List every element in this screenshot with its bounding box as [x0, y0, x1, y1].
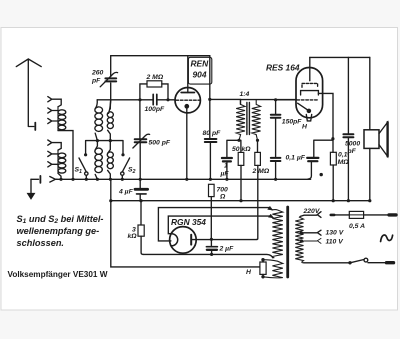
wire HT bottom line [143, 254, 273, 257]
wire V3 anode out [191, 239, 257, 241]
tube V1 REN904 envelope [175, 88, 200, 113]
capacitor C 2uF [210, 239, 212, 254]
tube V1 grid dashes [176, 99, 200, 101]
label box REN 904 [188, 57, 211, 84]
rectifier box outer line [158, 208, 272, 241]
antenna tap arrows lower [48, 140, 61, 150]
transformer T1 core [247, 103, 250, 135]
svg-text:2 MΩ: 2 MΩ [252, 168, 270, 175]
tap 220V [300, 212, 321, 218]
wire anode top REN [111, 56, 210, 100]
svg-text:904: 904 [193, 69, 207, 79]
transformer T2 primary winding [295, 216, 304, 262]
resistor R 50k [238, 152, 244, 165]
fuse 0.5A wire [331, 214, 389, 216]
svg-text:RES 164: RES 164 [266, 63, 300, 73]
rectifier box inner line [168, 216, 273, 234]
wire to hum pot [111, 179, 260, 267]
svg-text:5000: 5000 [345, 141, 360, 148]
svg-text:50 kΩ: 50 kΩ [232, 146, 251, 153]
svg-text:REN: REN [191, 58, 210, 68]
svg-text:2 µF: 2 µF [219, 246, 235, 253]
svg-text:schlossen.: schlossen. [17, 238, 65, 248]
capacitor C 1uF [227, 140, 239, 179]
resistor R 700 ohm [209, 184, 215, 196]
tap 130V [301, 230, 321, 235]
transformer T2 filament winding [263, 260, 283, 278]
svg-text:RGN 354: RGN 354 [171, 217, 206, 227]
svg-text:Ω: Ω [219, 193, 226, 200]
capacitor C mid on rail [275, 162, 277, 180]
svg-text:110 V: 110 V [326, 238, 345, 245]
mains switch [304, 262, 350, 264]
tube V2 screen bracket [301, 91, 319, 95]
coil L2b tuned lower-left [95, 148, 102, 173]
resistor R 2M AF [255, 152, 261, 165]
svg-text:Volksempfänger VE301 W: Volksempfänger VE301 W [8, 270, 108, 279]
wire grid RES line [240, 99, 296, 101]
svg-text:80 pF: 80 pF [203, 130, 222, 137]
coil L3a feedback upper-right [107, 112, 113, 129]
capacitor C 150pF [275, 100, 277, 158]
capacitor C 80pF [209, 99, 212, 179]
switch S1 [79, 158, 86, 171]
wire grid lead from coil top [95, 100, 97, 109]
antenna terminal bar [34, 123, 36, 130]
svg-text:0,5 A: 0,5 A [349, 223, 365, 230]
tube V3 filament arc [172, 234, 178, 246]
capacitor C 260pF variable [109, 56, 111, 109]
tube V2 anode lead [309, 57, 311, 80]
ground terminal bar [39, 176, 41, 183]
wire tap bar S1-S2 [86, 141, 123, 155]
svg-text:700: 700 [217, 186, 229, 193]
terminal fuse end [389, 213, 396, 216]
svg-text:S1 und S2 bei Mittel-: S1 und S2 bei Mittel- [17, 214, 104, 225]
wire grid line horizontal [97, 99, 175, 101]
wire L2a bottom to tap wire [95, 133, 97, 140]
resistor R hum H [260, 262, 266, 274]
tube V2 RES164 envelope [296, 68, 323, 118]
svg-text:4 µF: 4 µF [118, 189, 134, 196]
wire anode to transformer [210, 99, 241, 104]
wire anode top RES [310, 56, 370, 58]
tube V2 anode bracket dashed [302, 83, 318, 87]
svg-text:220V: 220V [303, 208, 321, 215]
svg-text:0,1 µF: 0,1 µF [286, 155, 306, 162]
svg-text:0,1: 0,1 [338, 151, 348, 158]
resistor R 3k [138, 225, 144, 236]
coil L3b feedback lower-right [107, 152, 113, 169]
svg-text:100pF: 100pF [145, 106, 165, 113]
wire rail1 (cathode/ground rail) [56, 178, 311, 180]
wire L2b to rail1 [95, 141, 97, 180]
tube V3 anode bar [190, 235, 192, 245]
wire grid junction to tube [276, 99, 297, 101]
resistor R 2M grid leak [147, 81, 162, 87]
svg-text:1: 1 [224, 163, 228, 170]
tube V3 RGN354 envelope [170, 227, 197, 254]
capacitor C 100pF (in grid wire) [153, 94, 157, 104]
speaker [369, 57, 371, 200]
tube V2 screen wire out [318, 93, 333, 138]
capacitor C 4uF [139, 179, 141, 200]
transformer T1 secondary winding [252, 100, 261, 141]
svg-text:MΩ: MΩ [338, 159, 350, 166]
wire L1a bottom to rail [58, 131, 73, 180]
tube V2 grid dashes [297, 99, 318, 101]
svg-text:kΩ: kΩ [128, 233, 138, 240]
svg-text:500 pF: 500 pF [149, 140, 171, 147]
AC symbol [381, 235, 393, 242]
coil L1b antenna lower [57, 150, 59, 173]
transformer T2 HT winding [272, 210, 283, 258]
coil L1a antenna upper [57, 107, 59, 131]
svg-text:µF: µF [220, 170, 230, 177]
rail1 connector arrow [50, 177, 57, 183]
svg-text:wellenempfang ge-: wellenempfang ge- [17, 226, 100, 236]
tap 110V [302, 238, 322, 243]
svg-text:pF: pF [347, 148, 357, 155]
ground [30, 179, 32, 193]
tube V1 cathode [185, 105, 188, 108]
transformer T1 primary winding [236, 100, 245, 141]
capacitor C 5000pF [347, 57, 349, 200]
svg-text:130 V: 130 V [326, 229, 345, 236]
wire L3 connections [108, 100, 111, 179]
resistor R 0.1M [330, 152, 336, 165]
tube V2 filament [298, 103, 309, 111]
antenna tap arrows upper [48, 97, 61, 107]
svg-text:2 MΩ: 2 MΩ [146, 74, 164, 81]
coil L2a tuned upper-left [95, 107, 103, 132]
transformer T2 core [286, 207, 289, 277]
fuse body [349, 211, 363, 218]
switch S2 [123, 158, 130, 171]
svg-text:pF: pF [91, 77, 101, 84]
svg-text:150pF: 150pF [282, 119, 302, 126]
capacitor C 500pF variable [139, 100, 141, 180]
tube V1 anode [181, 92, 194, 94]
wire L1b bottom [58, 173, 61, 179]
capacitor C 0.1uF output [308, 140, 333, 179]
svg-text:260: 260 [91, 70, 104, 77]
antenna [16, 59, 41, 127]
svg-text:1:4: 1:4 [240, 91, 250, 98]
wire rail2 (B+ return rail) [111, 200, 370, 202]
terminal switch end [387, 261, 394, 264]
